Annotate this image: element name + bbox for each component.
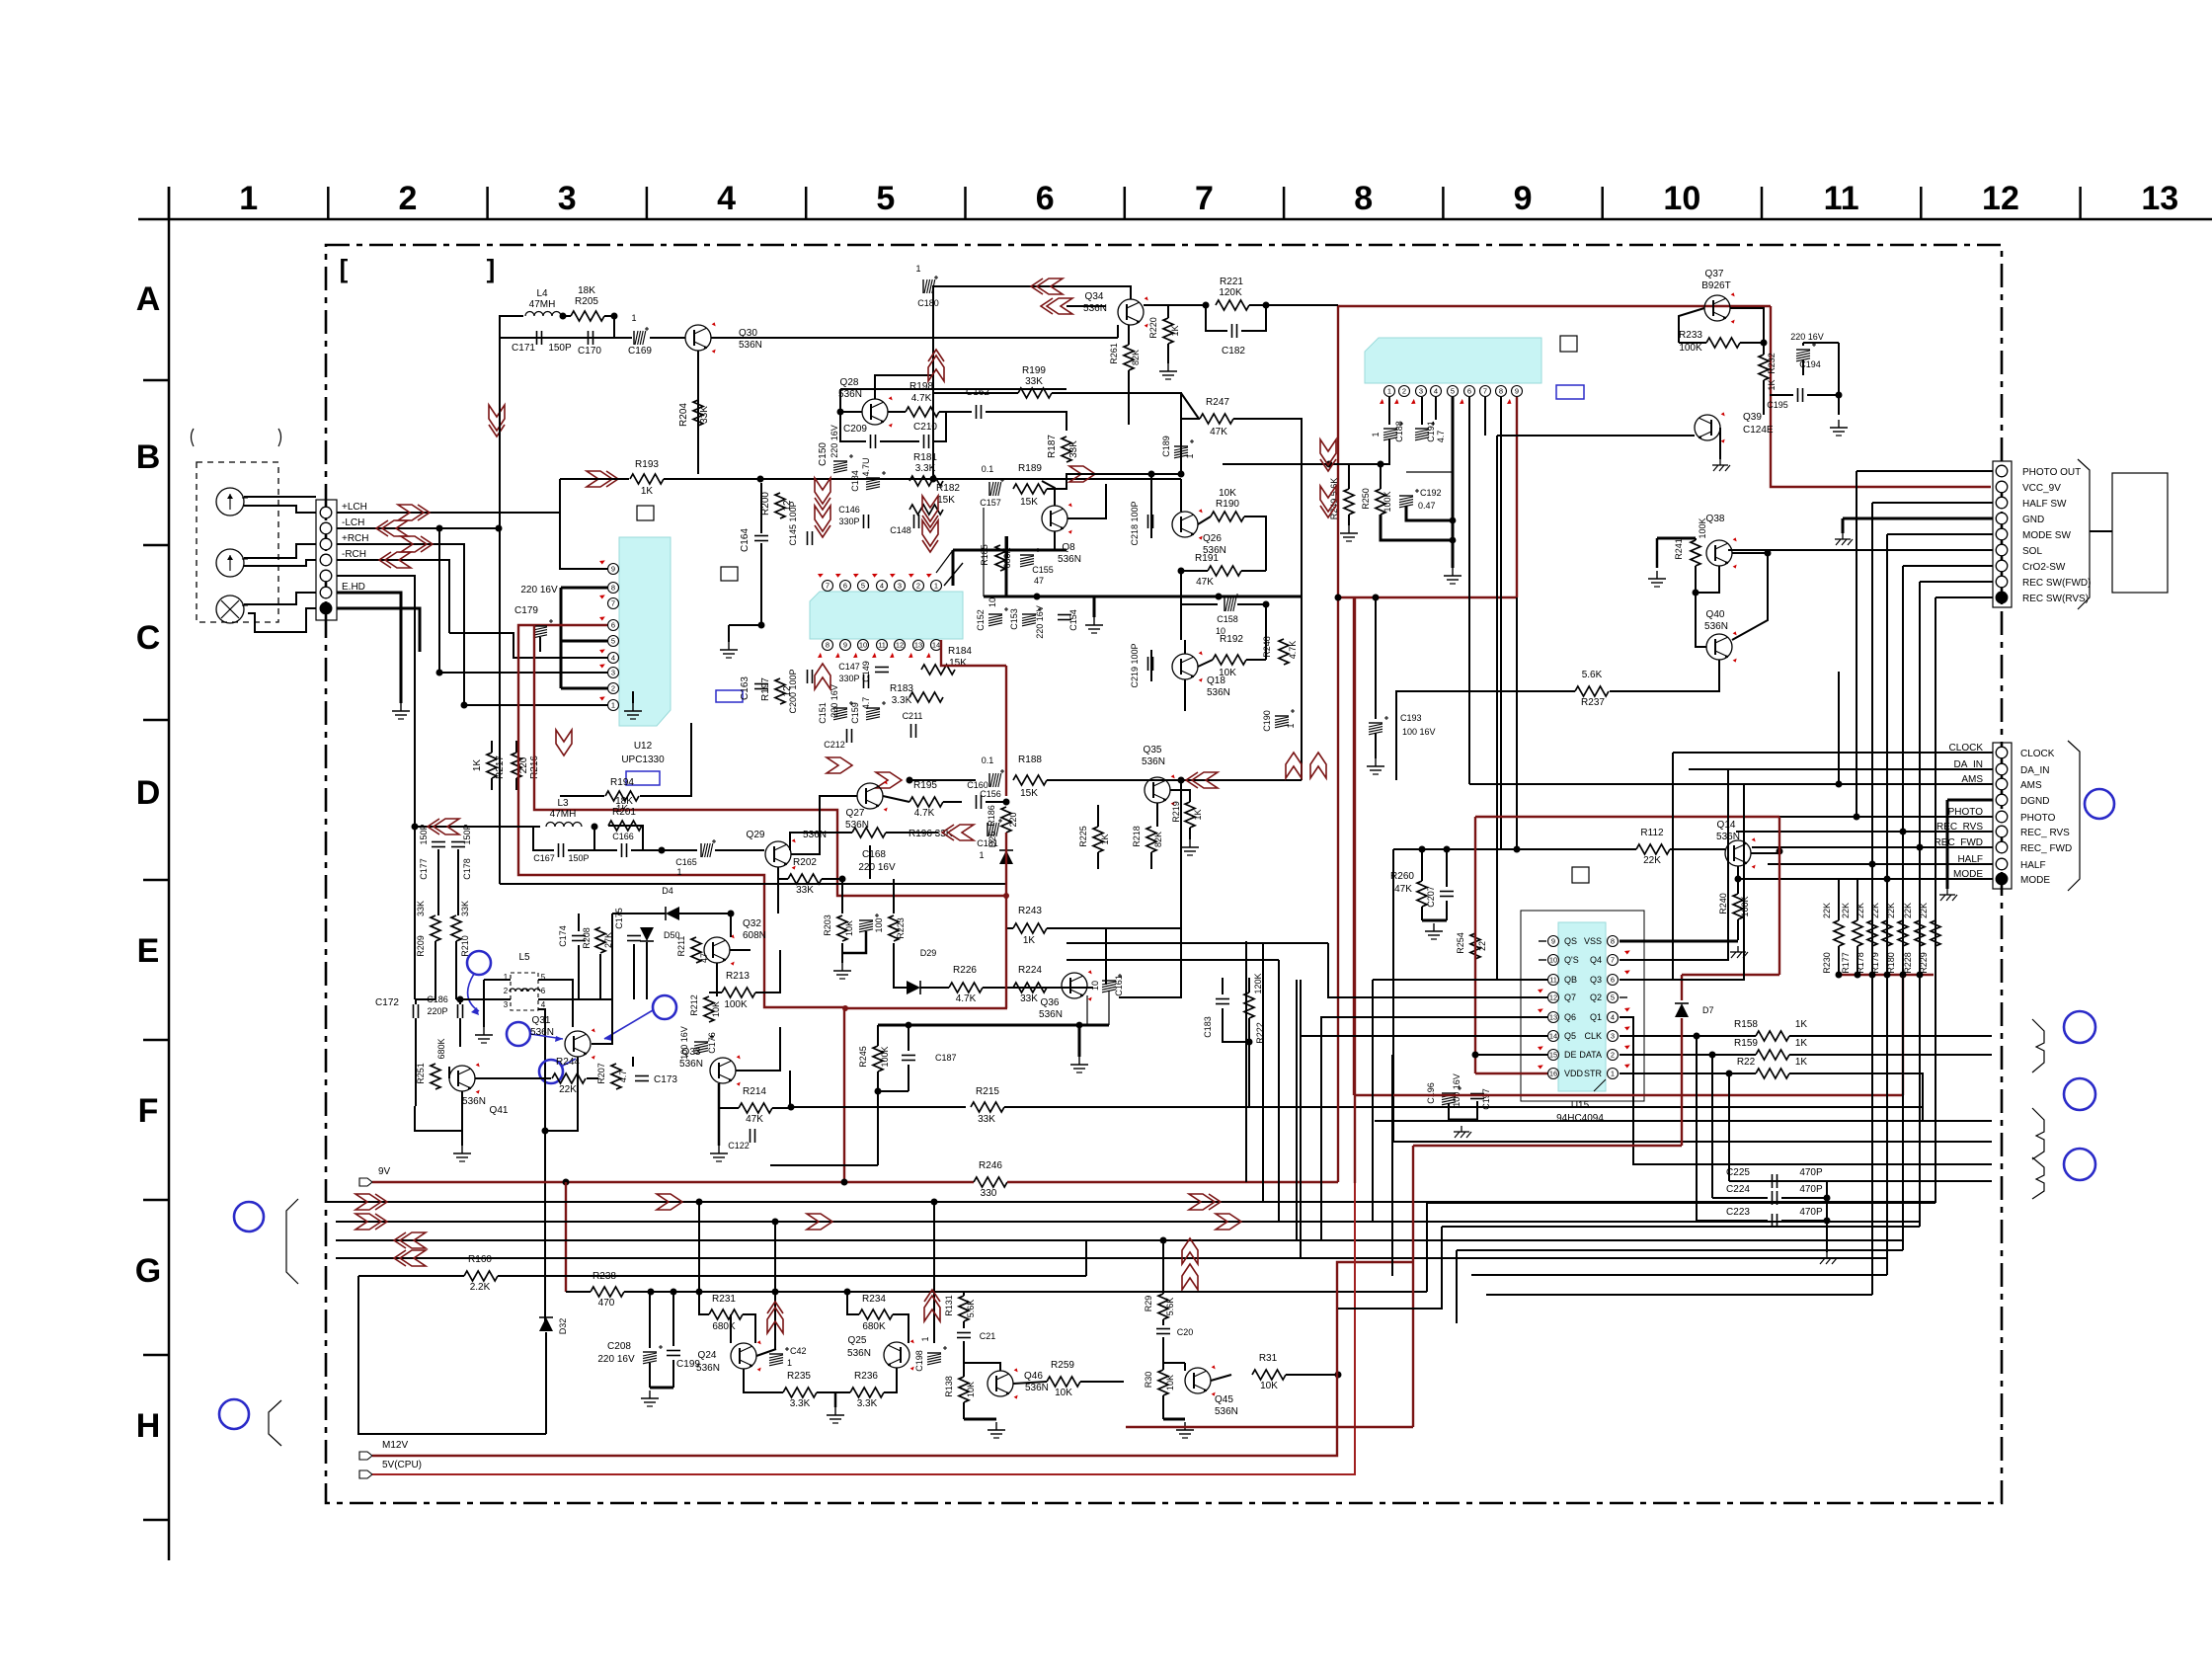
- wire -RCH: [337, 560, 449, 633]
- transistor Q14: [1725, 840, 1751, 866]
- ground2: [1826, 1252, 1828, 1258]
- svg-text:10K: 10K: [1055, 1388, 1072, 1398]
- wire: [358, 1275, 464, 1277]
- wire: [877, 1072, 879, 1107]
- wire: [1170, 790, 1190, 802]
- wire: [939, 411, 972, 413]
- wire: [1856, 879, 1858, 920]
- transistor Q30: [685, 325, 711, 351]
- connector pin: [320, 602, 332, 614]
- svg-text:R184: R184: [948, 646, 972, 657]
- wire pin8 thick: [561, 587, 607, 590]
- svg-text:11: 11: [878, 641, 886, 650]
- wire Q5: [1301, 1036, 1547, 1258]
- svg-text:R199: R199: [1022, 365, 1046, 376]
- capacitor C158 polarized: [1224, 597, 1225, 611]
- wire vert: [774, 1222, 776, 1349]
- svg-text:STR: STR: [1584, 1069, 1603, 1078]
- inductor L4: [525, 312, 561, 317]
- IC U14 pin 2: [1399, 386, 1410, 397]
- svg-text:10K: 10K: [1165, 1375, 1175, 1390]
- connector CN-B pin AMS: [1996, 778, 2008, 790]
- svg-text:4.7: 4.7: [1436, 431, 1446, 443]
- wire: [448, 1067, 450, 1078]
- IC U12 pin 2: [608, 683, 619, 694]
- IC U13 top pin 7: [823, 581, 833, 592]
- wire R189 net: [1047, 474, 1181, 489]
- svg-text:R215: R215: [976, 1086, 999, 1097]
- capacitor C224: [1772, 1191, 1774, 1205]
- wire: [416, 998, 435, 1000]
- svg-text:1: 1: [1185, 453, 1195, 458]
- wire: [755, 950, 780, 993]
- wire: [730, 913, 732, 937]
- capacitor C187 vertical: [902, 1055, 915, 1057]
- svg-text:R194: R194: [610, 777, 634, 788]
- svg-text:5.6K: 5.6K: [966, 1300, 976, 1318]
- blue pointer: [530, 1034, 563, 1039]
- capacitor C193 polarized: [1369, 722, 1382, 724]
- wire SOL: [1728, 549, 1993, 551]
- svg-text:R237: R237: [1581, 697, 1605, 708]
- svg-text:C160: C160: [967, 780, 988, 790]
- svg-text:C174: C174: [558, 925, 568, 947]
- arrow: [1189, 1194, 1215, 1210]
- resistor R225 vertical: [1093, 827, 1103, 852]
- connector CN-A body: [1993, 461, 2012, 607]
- wire DATA row: [1619, 1054, 1756, 1056]
- wire AMS: [1469, 783, 1993, 785]
- ground: [1184, 1422, 1186, 1430]
- wire: [604, 316, 614, 338]
- wire: [884, 1368, 897, 1392]
- wire: [566, 1291, 591, 1293]
- capacitor C152 polarized: [988, 613, 1002, 615]
- bus line 4: [336, 1257, 1887, 1259]
- resistor R199: [1018, 388, 1052, 398]
- wire vert: [1886, 534, 1888, 879]
- junction: [1836, 781, 1843, 788]
- wire: [415, 999, 417, 1004]
- svg-text:D4: D4: [662, 886, 673, 896]
- svg-text:11: 11: [1824, 180, 1859, 217]
- svg-text:33K: 33K: [699, 406, 710, 424]
- wire REC FWD: [1920, 581, 1993, 583]
- wire: [1198, 516, 1211, 524]
- capacitor C200: [807, 670, 809, 683]
- svg-text:C20: C20: [1177, 1327, 1194, 1337]
- IC U13 top pin 3: [895, 581, 906, 592]
- resistor R201: [608, 821, 642, 831]
- wire: [1181, 393, 1199, 419]
- junction: [728, 911, 735, 917]
- wire: [1223, 1008, 1249, 1042]
- connector CN-A pin GND: [1996, 513, 2008, 524]
- wire: [817, 1391, 850, 1393]
- wire MODE feed: [1738, 878, 1783, 880]
- blue circle: [2064, 1149, 2095, 1180]
- wire vert: [1856, 471, 1857, 817]
- junction: [461, 702, 468, 709]
- IC U15 pin 10: [1548, 955, 1559, 966]
- svg-text:DE: DE: [1564, 1050, 1577, 1060]
- wire: [1241, 570, 1266, 572]
- wire: [1396, 691, 1575, 780]
- capacitor C194 polarized: [1796, 349, 1810, 351]
- svg-text:150P: 150P: [462, 824, 472, 844]
- svg-text:Q8: Q8: [1062, 542, 1075, 553]
- resistor R243: [1013, 923, 1047, 933]
- maroon vertical main: [1337, 306, 1339, 1182]
- U15 pin stub Q2: [1619, 996, 1627, 998]
- svg-text:R22: R22: [1737, 1057, 1756, 1068]
- svg-text:100: 100: [874, 917, 884, 932]
- resistor R195: [909, 797, 943, 807]
- wire: [415, 1018, 417, 1106]
- svg-text:10: 10: [1090, 981, 1100, 991]
- maroon M12V: [372, 1262, 1413, 1456]
- IC U12 pin 9: [608, 564, 619, 575]
- IC U14 pin 4: [1431, 386, 1442, 397]
- svg-text:R209: R209: [416, 935, 426, 957]
- maroon chevron: [948, 825, 974, 840]
- svg-text:C192: C192: [1420, 488, 1442, 498]
- svg-text:3: 3: [558, 180, 577, 217]
- connector CN-B pin PHOTO: [1996, 811, 2008, 823]
- resistor R186 vertical: [1001, 807, 1011, 833]
- wire: [777, 867, 779, 879]
- inductor L3: [546, 823, 582, 828]
- wire: [1732, 552, 1768, 554]
- red mark: [908, 571, 914, 578]
- svg-text:2: 2: [916, 582, 920, 591]
- svg-text:15: 15: [1549, 1051, 1557, 1060]
- maroon chevron: [815, 478, 830, 504]
- svg-text:536N: 536N: [1142, 756, 1165, 767]
- svg-text:330P: 330P: [838, 674, 859, 683]
- junction: [436, 525, 443, 532]
- wire: [772, 1071, 790, 1108]
- wire: [414, 827, 416, 999]
- junction: [1335, 1372, 1342, 1379]
- connector CN-A pin REC SW(RVS): [1996, 592, 2008, 603]
- svg-text:330: 330: [981, 1188, 997, 1199]
- svg-text:HALF SW: HALF SW: [2022, 499, 2067, 510]
- resistor R112: [1636, 844, 1670, 854]
- svg-text:QB: QB: [1564, 975, 1577, 985]
- svg-text:R183: R183: [890, 683, 913, 694]
- svg-text:536N: 536N: [1207, 687, 1230, 698]
- svg-text:10: 10: [987, 597, 997, 607]
- connector CN-B pin REC_ RVS: [1996, 826, 2008, 837]
- input shield lead ): [278, 429, 281, 446]
- resistor R241 vertical: [1691, 540, 1700, 566]
- svg-text:536N: 536N: [847, 1348, 871, 1359]
- wire: [1181, 603, 1218, 605]
- svg-text:F: F: [138, 1092, 159, 1130]
- junction: [839, 876, 846, 883]
- wire: [790, 833, 852, 850]
- wire CLK row: [1619, 1035, 1756, 1037]
- ruler tick column 5: [964, 187, 967, 219]
- svg-text:C183: C183: [1203, 1016, 1213, 1038]
- red mark: [1506, 399, 1513, 406]
- wire: [888, 411, 906, 413]
- capacitor C223: [1772, 1214, 1774, 1228]
- svg-text:6: 6: [611, 621, 615, 630]
- wire QB: [1373, 979, 1547, 981]
- IC U13 bottom pin 10: [858, 640, 869, 651]
- blue circle: [653, 995, 676, 1019]
- svg-text:14: 14: [1549, 1032, 1557, 1041]
- ground: [1348, 525, 1350, 533]
- wire: [1446, 849, 1448, 887]
- input shield dashed box: [197, 462, 278, 622]
- svg-text:Q37: Q37: [1705, 269, 1724, 279]
- wire: [1180, 780, 1182, 928]
- wire: [770, 1164, 878, 1166]
- ground: [649, 1390, 651, 1398]
- IC U13 bottom pin 8: [823, 640, 833, 651]
- junction: [772, 1219, 779, 1226]
- wire: [1329, 463, 1389, 465]
- svg-text:R238: R238: [592, 1271, 616, 1282]
- svg-text:1: 1: [1387, 387, 1391, 396]
- wire: [963, 1321, 965, 1328]
- resistor R180 vertical: [1898, 920, 1908, 946]
- wire: [1375, 597, 1377, 719]
- junction: [1263, 302, 1270, 309]
- wire: [1902, 832, 1904, 1250]
- capacitor C180 polarized: [922, 279, 924, 293]
- svg-text:100K: 100K: [724, 999, 748, 1010]
- svg-text:8: 8: [1499, 387, 1503, 396]
- capacitor C186: [457, 1004, 459, 1018]
- wire thick ground bus: [984, 596, 1302, 598]
- wire: [1180, 435, 1182, 474]
- svg-text:R211: R211: [676, 936, 686, 957]
- red mark: [925, 571, 932, 578]
- ruler tick column 9: [1601, 187, 1604, 219]
- maroon vert2: [1778, 817, 1780, 975]
- svg-text:R182: R182: [936, 483, 960, 494]
- wire R238 net: [624, 1291, 1427, 1293]
- wire L5 pin5: [538, 980, 573, 1027]
- svg-text:15K: 15K: [1020, 497, 1038, 508]
- wire to Q29: [715, 849, 764, 851]
- resistor R22 on STR: [1756, 1069, 1789, 1078]
- junction: [1777, 848, 1783, 855]
- transistor Q26: [1172, 512, 1198, 537]
- svg-text:6: 6: [1467, 387, 1471, 396]
- capacitor C176 polarized: [694, 1041, 708, 1043]
- svg-text:12: 12: [1982, 180, 2019, 217]
- capacitor C160: [976, 795, 978, 809]
- transistor Q24: [731, 1343, 756, 1369]
- svg-text:CLK: CLK: [1584, 1031, 1602, 1041]
- svg-text:R178: R178: [1856, 952, 1865, 974]
- svg-text:C151: C151: [818, 702, 828, 724]
- wire: [963, 1292, 965, 1296]
- svg-text:5: 5: [1611, 993, 1615, 1002]
- junction: [1884, 876, 1891, 883]
- capacitor C178: [451, 841, 465, 843]
- connector CN-A pin VCC_9V: [1996, 481, 2008, 493]
- ground: [1375, 758, 1377, 766]
- svg-text:1K: 1K: [641, 486, 654, 497]
- wire: [1807, 395, 1839, 415]
- resistor R131 vertical: [959, 1296, 969, 1321]
- ground: [1656, 571, 1658, 579]
- svg-text:C169: C169: [628, 346, 652, 357]
- svg-text:100K: 100K: [1698, 517, 1707, 538]
- capacitor C179 polarized: [533, 625, 547, 627]
- jack J2 +R: [216, 549, 244, 577]
- wire: [1184, 640, 1186, 654]
- svg-text:Q32: Q32: [743, 918, 761, 929]
- capacitor C145: [807, 531, 809, 545]
- red mark: [1379, 399, 1385, 406]
- svg-text:11: 11: [1549, 976, 1557, 985]
- svg-text:C179: C179: [514, 605, 538, 616]
- bus right 3: [1457, 1249, 1903, 1251]
- svg-text:9: 9: [843, 641, 847, 650]
- svg-text:C153: C153: [1009, 608, 1019, 630]
- wire: [544, 1067, 546, 1131]
- capacitor C175 vertical: [627, 935, 641, 937]
- svg-text:3: 3: [611, 669, 615, 677]
- resistor R261 vertical: [1124, 345, 1134, 370]
- wire: [533, 826, 540, 828]
- svg-text:Q39: Q39: [1743, 412, 1762, 423]
- white box: [637, 506, 654, 520]
- red mark: [1623, 1005, 1630, 1012]
- svg-text:1K: 1K: [1100, 834, 1110, 844]
- resistor R234: [859, 1310, 893, 1319]
- ruler row tick: [143, 1039, 169, 1042]
- wire: [1391, 1055, 1393, 1276]
- resistor R193: [630, 474, 664, 484]
- svg-text:B: B: [136, 438, 161, 476]
- capacitor C21 vertical: [957, 1332, 971, 1334]
- maroon chevron: [1037, 278, 1063, 294]
- ground2: [1842, 533, 1844, 539]
- brace: [2032, 1157, 2044, 1199]
- wire pin6 drop: [1468, 397, 1470, 784]
- resistor R251 vertical: [431, 1064, 440, 1089]
- svg-text:C147: C147: [838, 662, 860, 672]
- svg-text:R231: R231: [712, 1294, 736, 1305]
- svg-text:100K: 100K: [1382, 491, 1392, 512]
- wire: [1871, 879, 1873, 920]
- svg-text:R192: R192: [1220, 634, 1243, 645]
- wire: [839, 389, 841, 412]
- resistor R205: [571, 311, 604, 321]
- IC U15 pin 5: [1608, 993, 1619, 1003]
- svg-text:13: 13: [1549, 1013, 1557, 1022]
- svg-text:R250: R250: [1361, 488, 1371, 510]
- wire: [1006, 536, 1008, 558]
- resistor R188: [1013, 775, 1047, 785]
- maroon vert main2: [1353, 597, 1355, 1095]
- wire: [730, 913, 732, 936]
- transistor Q27: [857, 783, 883, 809]
- IC U14 pin 6: [1464, 386, 1475, 397]
- junction: [1735, 876, 1742, 883]
- IC U15 pin 11: [1548, 975, 1559, 986]
- wire: [1781, 1220, 1827, 1222]
- IC U13 pin1 diagonal: [944, 563, 963, 586]
- wire thick: [1657, 537, 1696, 540]
- svg-text:R189: R189: [1018, 463, 1042, 474]
- resistor R215 on row: [971, 1102, 1004, 1112]
- wire R215 row: [790, 1106, 966, 1108]
- svg-text:C178: C178: [462, 858, 472, 880]
- svg-text:REC SW(RVS): REC SW(RVS): [2022, 594, 2089, 604]
- bus right 5: [1486, 1294, 1872, 1296]
- maroon chevron: [827, 757, 852, 773]
- wire to L5: [456, 998, 511, 1000]
- connector CN-B pin REC_ FWD: [1996, 841, 2008, 853]
- svg-text:R260: R260: [1390, 871, 1414, 882]
- wire: [1167, 344, 1169, 363]
- capacitor C209: [870, 435, 872, 448]
- wire pin2 thick: [561, 687, 607, 690]
- wire: [545, 1332, 547, 1434]
- wire: [1842, 518, 1845, 533]
- wire: [1047, 927, 1181, 929]
- capacitor C190 polarized: [1275, 715, 1289, 717]
- transistor Q37: [1704, 295, 1730, 321]
- svg-text:R223: R223: [896, 917, 906, 939]
- svg-text:SOL: SOL: [2022, 546, 2042, 557]
- svg-text:C150: C150: [818, 442, 829, 466]
- svg-text:GND: GND: [2022, 515, 2044, 525]
- wire: [457, 849, 459, 915]
- junction: [1900, 972, 1907, 979]
- resistor R260 vertical: [1417, 881, 1427, 907]
- resistor R248 vertical: [1279, 639, 1289, 665]
- svg-text:9: 9: [1514, 180, 1533, 217]
- wire pin9: [560, 479, 607, 569]
- red mark: [852, 571, 859, 578]
- resistor R204 vertical: [693, 400, 703, 426]
- ruler tick column 2: [486, 187, 489, 219]
- connector CN-A pin HALF SW: [1996, 497, 2008, 509]
- red mark: [1537, 987, 1543, 993]
- svg-text:C195: C195: [1767, 400, 1788, 410]
- svg-text:C188: C188: [1394, 421, 1404, 442]
- ruler row tick: [143, 1519, 169, 1522]
- capacitor C210: [923, 435, 925, 448]
- wire: [415, 1091, 462, 1131]
- svg-text:4.7: 4.7: [618, 1071, 628, 1083]
- svg-text:10K: 10K: [966, 1382, 976, 1397]
- svg-text:5: 5: [876, 180, 895, 217]
- wire: [672, 1360, 674, 1388]
- junction: [1450, 517, 1457, 524]
- wire: [1838, 879, 1840, 920]
- ground: [483, 1027, 485, 1035]
- svg-text:R131: R131: [944, 1295, 954, 1316]
- svg-text:R193: R193: [635, 459, 659, 470]
- junction: [1335, 595, 1342, 601]
- svg-text:2: 2: [1402, 387, 1406, 396]
- wire: [563, 315, 571, 317]
- wire: [964, 1362, 987, 1364]
- bus line 1: [336, 1201, 1935, 1203]
- svg-text:5V(CPU): 5V(CPU): [382, 1460, 422, 1470]
